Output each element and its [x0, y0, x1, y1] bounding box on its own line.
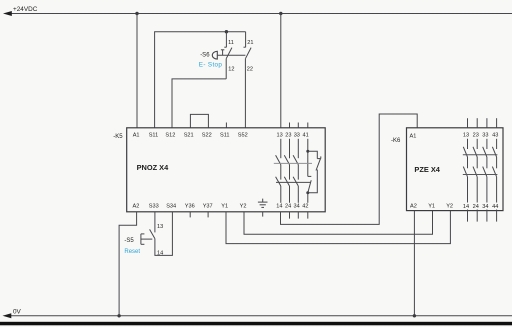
junction dot 0V at A2 -K5 [117, 314, 120, 317]
wire +24V down to -K5 pin 13 [280, 14, 282, 128]
svg-text:S11: S11 [149, 132, 159, 138]
svg-text:21: 21 [247, 40, 253, 46]
svg-text:A2: A2 [410, 203, 417, 209]
K6 mechanical link line 1 [463, 154, 498, 156]
wire E-stop loop top [155, 32, 246, 128]
svg-text:Y37: Y37 [203, 204, 213, 210]
wire K5 Y2 to K6 Y1 [244, 211, 433, 235]
svg-text:+24VDC: +24VDC [13, 6, 38, 13]
K6 NO contact 33-34 [483, 118, 487, 221]
svg-text:A1: A1 [133, 132, 140, 138]
svg-text:14: 14 [463, 204, 469, 210]
svg-text:S12: S12 [165, 132, 175, 138]
K5 NO contact 33-34 [293, 139, 298, 203]
junction dot: +24V to A1 [135, 12, 138, 15]
+24VDC supply rail [3, 6, 512, 16]
svg-text:Y1: Y1 [221, 204, 228, 210]
svg-text:34: 34 [294, 204, 300, 210]
terminal tick K5 pin 33 [297, 123, 299, 128]
terminal tick S11(2) [225, 123, 227, 128]
svg-text:33: 33 [294, 132, 300, 138]
K5 bottom terminal labels [133, 204, 309, 210]
svg-text:33: 33 [482, 132, 488, 138]
svg-text:13: 13 [277, 132, 283, 138]
wire K5 A2 to 0V rail [119, 212, 137, 316]
junction dot E-stop branch [225, 30, 228, 33]
jumper S21-S22 [190, 114, 208, 127]
wire K5 pin 14 to K6 A1 [281, 114, 418, 224]
svg-text:11: 11 [228, 40, 234, 46]
terminal tick K5 pin 41 [307, 123, 309, 128]
K5 mechanical link line 2 [276, 181, 311, 183]
K5 NO contact 13-14 [276, 139, 281, 203]
svg-text:22: 22 [247, 67, 253, 73]
wire contact 12 to S12 [172, 79, 226, 128]
e-stop NC contact 21-22 [244, 32, 254, 128]
svg-text:Reset: Reset [124, 249, 140, 255]
e-stop NC contact 11-12 [224, 32, 234, 79]
0V supply rail [3, 308, 512, 318]
e-stop button -S6 mushroom actuator [199, 50, 246, 69]
svg-text:S11: S11 [220, 132, 230, 138]
svg-text:23: 23 [473, 132, 479, 138]
svg-text:S52: S52 [238, 132, 248, 138]
svg-text:24: 24 [285, 204, 291, 210]
K6 NO contact 13-14 [463, 118, 467, 221]
wire +24V down to -K5 A1 [136, 14, 138, 128]
K5 bottom terminal stubs [190, 212, 308, 219]
terminal tick K5 pin 23 [289, 123, 291, 128]
reset NO contact 13-14 with S33/S34 loop [150, 212, 173, 257]
svg-text:13: 13 [463, 132, 469, 138]
K6 terminal labels [410, 132, 499, 210]
K6 mechanical link line 2 [463, 174, 498, 176]
wire K5 Y1 to K6 Y2 [226, 211, 450, 244]
K5 NO contact 23-24 [284, 139, 289, 203]
svg-text:14: 14 [157, 251, 163, 257]
junction dot: +24V to K5 pin 13 [279, 12, 282, 15]
svg-text:PZE X4: PZE X4 [414, 165, 440, 174]
svg-text:41: 41 [303, 132, 309, 138]
K6 NO contact 43-44 [492, 118, 496, 221]
svg-text:42: 42 [302, 204, 308, 210]
svg-text:S22: S22 [202, 132, 212, 138]
svg-text:-S5: -S5 [124, 238, 134, 244]
svg-text:A2: A2 [133, 204, 140, 210]
svg-text:A1: A1 [410, 133, 417, 139]
svg-text:S33: S33 [149, 204, 159, 210]
K5 mechanical link line 1 [274, 162, 312, 164]
safety relay K5 body PNOZ X4 [113, 128, 325, 212]
svg-text:E- Stop: E- Stop [199, 62, 223, 69]
svg-text:-K6: -K6 [391, 138, 401, 144]
K5 NC contact 41-42 forcibly guided [306, 139, 321, 203]
svg-text:34: 34 [482, 204, 488, 210]
junction dot 0V at A2 -K6 [413, 314, 416, 317]
svg-text:S34: S34 [166, 204, 176, 210]
reset button -S5 actuator [124, 234, 152, 255]
K6 NO contact 23-24 [473, 118, 477, 221]
svg-text:-S6: -S6 [200, 52, 210, 58]
svg-text:Y2: Y2 [446, 203, 453, 209]
svg-text:Y2: Y2 [240, 204, 247, 210]
svg-text:12: 12 [228, 67, 234, 73]
bottom frame bar [0, 322, 512, 326]
svg-text:13: 13 [157, 224, 163, 230]
svg-text:14: 14 [276, 204, 282, 210]
contact expander K6 body PZE X4 [391, 128, 503, 211]
svg-text:23: 23 [285, 132, 291, 138]
svg-text:Y1: Y1 [428, 203, 435, 209]
svg-text:24: 24 [473, 204, 479, 210]
svg-text:PNOZ X4: PNOZ X4 [137, 163, 170, 172]
K5 internal ground symbol [258, 199, 268, 208]
svg-text:0V: 0V [13, 308, 22, 315]
svg-text:Y36: Y36 [185, 204, 195, 210]
svg-text:-K5: -K5 [113, 134, 123, 140]
wire K6 A2 to 0V rail [413, 211, 415, 316]
svg-text:44: 44 [492, 204, 498, 210]
svg-text:43: 43 [492, 132, 498, 138]
K5 top terminal labels [133, 132, 309, 138]
svg-text:S21: S21 [184, 132, 194, 138]
